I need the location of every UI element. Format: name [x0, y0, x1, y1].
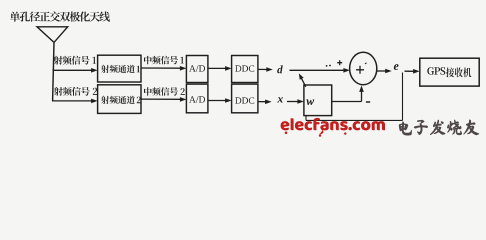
wire: error feedback riser into w block [305, 116, 307, 121]
wire: IF signal 1 into A/D 1 [141, 66, 186, 71]
label: IF signal 2 中频信号2 [144, 87, 185, 96]
node x label [277, 97, 283, 102]
label: IF signal 1 中频信号1 [144, 56, 184, 65]
wire: A/D 1 to DDC 1 [208, 66, 232, 71]
watermark text 电子发烧友 [399, 120, 479, 136]
minus sign at summing input (w) [366, 101, 370, 103]
wire: error feedback bottom run [306, 119, 403, 121]
label: antenna title 单孔径正交双极化天线 [10, 11, 110, 21]
plus sign inside summing junction [356, 66, 364, 74]
block: A/D converter 1 [186, 56, 208, 83]
wire: DDC 1 output to node d [258, 67, 273, 72]
watermark logo elecfans.com [281, 118, 385, 131]
label: RF signal 2 射频信号2 [54, 87, 97, 96]
wire: e into GPS receiver [405, 69, 420, 74]
wire: DDC 2 output to node x [258, 100, 272, 105]
watermark logo drip dots [285, 130, 347, 137]
label: DDC 1 text [235, 65, 254, 71]
wire: summing junction output to e [377, 69, 392, 74]
block: RF channel 1 射频通道1 [98, 55, 141, 82]
block: adaptive weight w [304, 85, 332, 116]
small tick inside summing junction [365, 63, 367, 64]
block: RF channel 2 射频通道2 [98, 85, 141, 114]
wire: error feedback from e down [402, 73, 404, 121]
label: block text RF channel 1 射频通道1 [101, 65, 140, 73]
adaptation arrow on w block [299, 73, 306, 86]
wire: w output up into summing junction (minus input) [332, 85, 364, 101]
label: A/D 2 text [189, 96, 205, 102]
label: GPS receiver text GPS [427, 67, 445, 75]
block: A/D converter 2 [186, 84, 208, 113]
label: block text RF channel 2 射频通道2 [101, 96, 141, 104]
node d label [277, 65, 283, 73]
label: GPS receiver text 接收机 [446, 68, 471, 78]
label: RF signal 1 射频信号1 [54, 56, 96, 65]
wire: RF signal 2 into RF channel 2 [52, 99, 98, 104]
dots on d wire [326, 65, 331, 67]
wire: IF signal 2 into A/D 2 [141, 97, 186, 102]
wire: RF signal 1 into RF channel 1 [53, 68, 98, 73]
block: DDC 2 [232, 84, 258, 113]
antenna symbol [37, 27, 68, 43]
label: DDC 2 text [235, 97, 254, 103]
plus sign at summing input (d) [337, 60, 342, 65]
wire: antenna feed down [53, 42, 54, 101]
label: w text [306, 99, 314, 105]
block: GPS receiver GPS接收机 [420, 58, 479, 86]
label: A/D 1 text [189, 65, 205, 71]
wire: A/D 2 to DDC 2 [208, 98, 232, 103]
summing junction circle [350, 52, 377, 84]
node e label [394, 64, 399, 70]
block: DDC 1 [232, 56, 258, 83]
wire: d to summing junction [290, 68, 350, 73]
paper background [0, 0, 486, 146]
wire: x into weight block w [287, 99, 304, 104]
